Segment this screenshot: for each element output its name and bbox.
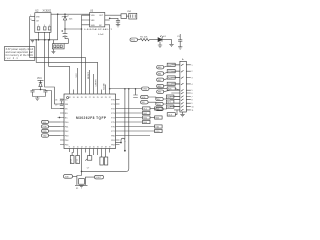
regulator U2 inner pin pads [37,27,40,30]
svg-text:VIN: VIN [36,17,40,19]
LED D1 [158,38,162,42]
svg-text:TXD0: TXD0 [142,89,147,91]
svg-text:11: 11 [192,110,194,112]
no-connect arrow pin [58,117,61,119]
svg-text:and reset supervisor part: and reset supervisor part [6,51,34,54]
svg-text:GL1: GL1 [143,109,147,111]
wire resistor to LED [150,39,159,41]
svg-text:2: 2 [192,71,193,73]
svg-text:5: 5 [192,90,193,92]
svg-text:SG3: SG3 [155,118,159,120]
svg-text:XIN: XIN [65,104,69,106]
regulator U2 pin 1 stub [30,15,35,17]
svg-text:for memory of the MCU: for memory of the MCU [6,54,34,57]
wire oval P61 [49,126,61,128]
svg-text:9: 9 [69,147,70,149]
svg-text:3: 3 [192,78,193,80]
crystal X1 plates [77,176,86,185]
svg-text:27: 27 [89,97,91,99]
svg-text:7: 7 [192,97,193,99]
wire node right to cap [41,90,46,91]
wire oval P63 [49,135,61,137]
svg-text:VCC: VCC [37,78,42,80]
junction zener bottom [64,28,66,30]
wire XIN label [73,175,77,177]
wire LED down [159,42,161,45]
MCU right pin stubs [116,100,120,145]
ferrite bead L1 [121,14,127,19]
wire right pin row5 [120,126,155,128]
net label oval P61 [42,125,49,128]
junction cap tap [109,18,111,20]
svg-text:9: 9 [192,103,193,105]
below chip label box pair 2 [100,157,103,165]
note text box [4,47,35,61]
svg-text:AN2: AN2 [158,79,162,82]
net label box row5 colB [155,125,163,128]
wire regulator input left and L down to chip pin [30,16,86,89]
wire regulator output to supervisor [51,13,90,15]
ground under LED D1 [158,45,162,47]
switch SW1 pads [54,45,56,48]
svg-text:SG1: SG1 [143,113,147,115]
crystal X1 caps rail [75,185,88,187]
svg-text:MODE: MODE [104,83,106,90]
wire CLK to connector [175,110,177,115]
wire row1 boxes link [150,108,155,110]
junction regulator pin3 rail [44,39,46,41]
svg-text:SG4: SG4 [143,122,147,124]
svg-text:30: 30 [77,97,79,99]
wire right pin row7 [120,135,151,137]
svg-text:13: 13 [85,147,87,149]
wire pair1 stubs [72,153,77,156]
MCU left pin stubs [60,100,64,145]
wire regulator bottom pin 2 [38,32,40,40]
crystal X1 body [79,179,85,185]
wire left L via x48.6 [49,40,70,90]
svg-text:15: 15 [93,147,95,149]
wire cap chain hook to switch [64,39,68,44]
svg-text:RXD: RXD [43,131,48,133]
junction bus vertical A [124,88,126,90]
svg-text:XOUT: XOUT [96,177,102,179]
svg-text:C8: C8 [55,100,57,102]
wires lower labels to connector [148,97,180,110]
wire bus rect to connector [175,89,180,91]
svg-text:29: 29 [81,97,83,99]
ground under capacitor C2 [116,25,120,27]
junction at supervisor vertical [81,28,83,30]
svg-text:10: 10 [73,147,75,149]
wire vcc cap top to chip pin [45,91,64,109]
svg-text:24: 24 [101,97,103,99]
J1 lower label ovals [156,97,163,111]
connector CN2 inner marks [130,15,135,18]
svg-text:4: 4 [49,25,50,27]
svg-text:16: 16 [97,147,99,149]
wire hook down [124,141,126,151]
svg-text:CNVSS: CNVSS [96,79,98,87]
junction xin bottom [81,171,83,173]
J1 lower label rects [166,95,174,109]
wire row3 boxes link [150,117,155,119]
ground under crystal [79,186,83,188]
supervisor U3 body [90,13,105,27]
capacitor C5 [43,91,47,97]
regulator U2 pin 3 stub [32,19,35,21]
capacitor C1 plus sign [61,30,63,32]
wire switch top stub [52,40,54,44]
connector J1 upper pins [171,64,192,92]
MCU U1 body [64,94,116,149]
svg-text:26: 26 [93,97,95,99]
connector CN2 body [129,13,137,19]
svg-text:XC6202: XC6202 [43,10,52,13]
svg-text:AN0: AN0 [158,66,162,69]
junction rail x36.2 [35,39,37,41]
wire zener node right [65,28,82,30]
wires ovals to connector upper [164,65,180,92]
net label rect on bus [167,87,175,90]
junction hook left [120,142,122,144]
svg-text:M30262F8 TQFP: M30262F8 TQFP [76,116,107,120]
MCU right pin names [111,99,115,146]
wire bus oval to rect [149,88,167,90]
svg-text:R26: R26 [167,97,170,99]
MCU pin1 dot [67,97,69,99]
wire right pin row6 [120,130,155,132]
net label oval P62 [42,129,49,132]
svg-text:C9: C9 [55,104,57,106]
ground under vcc caps [35,98,39,100]
svg-text:VCC: VCC [76,73,78,78]
net label box row4 colA [143,120,151,123]
wire vertical to pin 77.5 [77,68,79,90]
capacitor C6 on bus [133,89,138,98]
svg-text:4: 4 [192,84,193,86]
wire label to resistor [138,39,141,41]
junction regulator pin2 rail [38,39,40,41]
svg-text:0.1uF: 0.1uF [98,34,104,36]
wire oval P60 [49,121,61,123]
decoupling marks near chip left [60,99,63,106]
net label oval P60 [42,120,49,123]
wire regulator bottom pin 4 [49,32,51,40]
net label oval XOUT [95,175,104,179]
regulator U2 body [35,13,51,33]
svg-text:SDA: SDA [43,126,48,129]
svg-text:XIN: XIN [65,176,69,178]
svg-text:RESET: RESET [88,71,90,79]
net label oval on bus [142,87,150,90]
wire oval P62 [49,130,61,132]
svg-text:12: 12 [81,147,83,149]
net label box row1 colA [143,107,151,110]
wire bottom horizontal [82,170,127,172]
wire ground rail under regulator [30,39,58,41]
wire supervisor bottom right pin [105,25,110,90]
resistor R1 zigzag [140,38,150,40]
ground at rail left [31,41,34,43]
wire diode to node [40,87,42,90]
wire supervisor left vertical to chip [81,15,83,89]
svg-text:U2: U2 [35,9,39,13]
svg-text:VCC: VCC [131,40,136,42]
svg-text:C7: C7 [87,167,89,169]
svg-text:Ob1: Ob1 [155,127,159,129]
svg-text:TXD: TXD [43,136,48,138]
wire bus vertical B down with corner [126,89,129,172]
svg-text:R24: R24 [168,84,171,86]
svg-text:10: 10 [192,106,194,108]
net label box row6 colB [155,129,163,132]
wire pair2 stubs [102,153,106,158]
ground right of LED [169,44,173,46]
below chip small box [87,156,92,161]
MCU top pin stubs [70,90,110,95]
ground under switch SW1 [51,52,55,54]
svg-text:rev 2.1: rev 2.1 [6,57,19,60]
svg-text:23: 23 [105,97,107,99]
below chip label box pair 1 [70,156,74,164]
wire chip pin to hook [116,141,122,143]
wire right pin row3 [120,117,143,119]
net label oval XIN [64,175,73,179]
junction rail x48.6 [48,39,50,41]
ground under capacitor C3 [178,47,182,49]
wire right pin row2 [120,112,143,114]
svg-text:28: 28 [85,97,87,99]
net label box row3 colB [155,116,163,119]
wire cap to ground [117,22,119,25]
MCU top pin numbers [69,97,111,99]
junction vcc node [40,89,42,91]
junction bus cap tap [135,88,137,90]
svg-text:R23: R23 [168,78,171,80]
svg-text:6: 6 [192,93,193,95]
wire left L via x36.2 [36,40,97,90]
svg-text:R28: R28 [167,107,170,109]
svg-text:25: 25 [97,97,99,99]
svg-text:3.3V power supply circuit: 3.3V power supply circuit [6,48,34,51]
ground under connector J1 [180,114,184,116]
svg-text:3: 3 [44,25,45,27]
J1 upper label rects [167,63,175,86]
svg-text:R27: R27 [167,102,170,104]
wire vertical to pin 93.5 [93,74,95,90]
J1 upper label ovals [157,66,164,94]
svg-text:32: 32 [69,97,71,99]
capacitor C3 [178,34,182,47]
zener diode ZD1 [62,14,69,29]
junction bus at supervisor vertical [109,88,111,90]
connector J1 body [180,61,186,112]
diode D2 [39,82,42,86]
svg-text:2: 2 [38,25,39,27]
net label VCC2 oval [130,38,138,41]
capacitor C2 plates [116,21,120,23]
wire bus vertical A down [124,89,126,140]
svg-text:14: 14 [89,147,91,149]
svg-text:AN3: AN3 [158,85,162,88]
svg-text:S-80845ALNP-EA8-T2: S-80845ALNP-EA8-T2 [84,28,113,31]
svg-text:18: 18 [105,147,107,149]
svg-text:19: 19 [109,147,111,149]
svg-text:11: 11 [77,147,79,149]
wire output branch down to rail [57,14,59,40]
junction bus vertical B [128,88,130,90]
svg-text:R21: R21 [168,65,171,67]
svg-text:AN1: AN1 [158,73,162,76]
svg-text:CLK: CLK [168,114,173,116]
wire LED right branch [162,40,172,45]
capacitor C1 electrolytic [63,29,68,39]
wire regulator bottom pin 3 [44,32,46,40]
svg-text:8: 8 [192,100,193,102]
junction rail x44.6 [44,39,46,41]
wire supervisor right pin to bead [105,14,121,16]
connector J1 lower pins [170,92,194,112]
svg-text:AN4: AN4 [158,91,162,94]
supervisor left pin wires [82,15,90,25]
svg-text:R22: R22 [168,71,171,73]
supervisor mid right stub [105,19,110,21]
wire xin node to left plate [77,175,82,178]
wire vertical to pin 105.5 [105,85,107,90]
wire left L via x44.6 to chip pin [45,40,64,104]
wire right pin row4 [120,121,143,123]
net label box row3 colA [143,116,151,119]
svg-text:31: 31 [73,97,75,99]
hook arc [121,138,125,142]
MCU bottom pin numbers [69,147,111,149]
svg-text:VDD: VDD [91,15,96,17]
wire vertical to pin 89.5 [89,70,91,90]
wire right pin row1 [120,108,143,110]
net label box row1 colB [155,107,163,110]
MCU bottom pin stubs [70,149,110,156]
net label oval P63 [42,134,49,137]
junction output branch [57,13,59,15]
CLK label [167,113,175,116]
svg-text:OC0: OC0 [155,131,159,133]
svg-text:GLD: GLD [157,109,162,111]
svg-text:SDO: SDO [157,104,162,106]
svg-text:1: 1 [192,65,193,67]
wire caps join [33,97,46,99]
J1 lower left ovals [141,95,149,104]
svg-text:SG2: SG2 [143,118,147,120]
junction hook bottom [124,150,126,152]
wire bus horizontal from supervisor [110,88,142,90]
svg-text:P17: P17 [71,159,73,162]
wire cap branch [110,18,118,20]
svg-text:P16: P16 [77,159,79,162]
capacitor C4 [30,91,34,97]
wire XOUT label [86,176,95,178]
net label box row2 colA [143,111,151,114]
wire bead to connector [127,15,129,17]
svg-text:17: 17 [101,147,103,149]
junction regulator pin4 rail [49,39,51,41]
svg-text:SDI: SDI [142,102,146,104]
wire connector ground stub [182,112,184,114]
wire node left to cap [33,90,41,91]
switch SW1 body [52,44,64,49]
MCU left pin names [65,99,69,146]
junction output at zener tap [64,13,66,15]
wire xin down [81,153,83,176]
wire switch bottom stub [52,49,54,52]
